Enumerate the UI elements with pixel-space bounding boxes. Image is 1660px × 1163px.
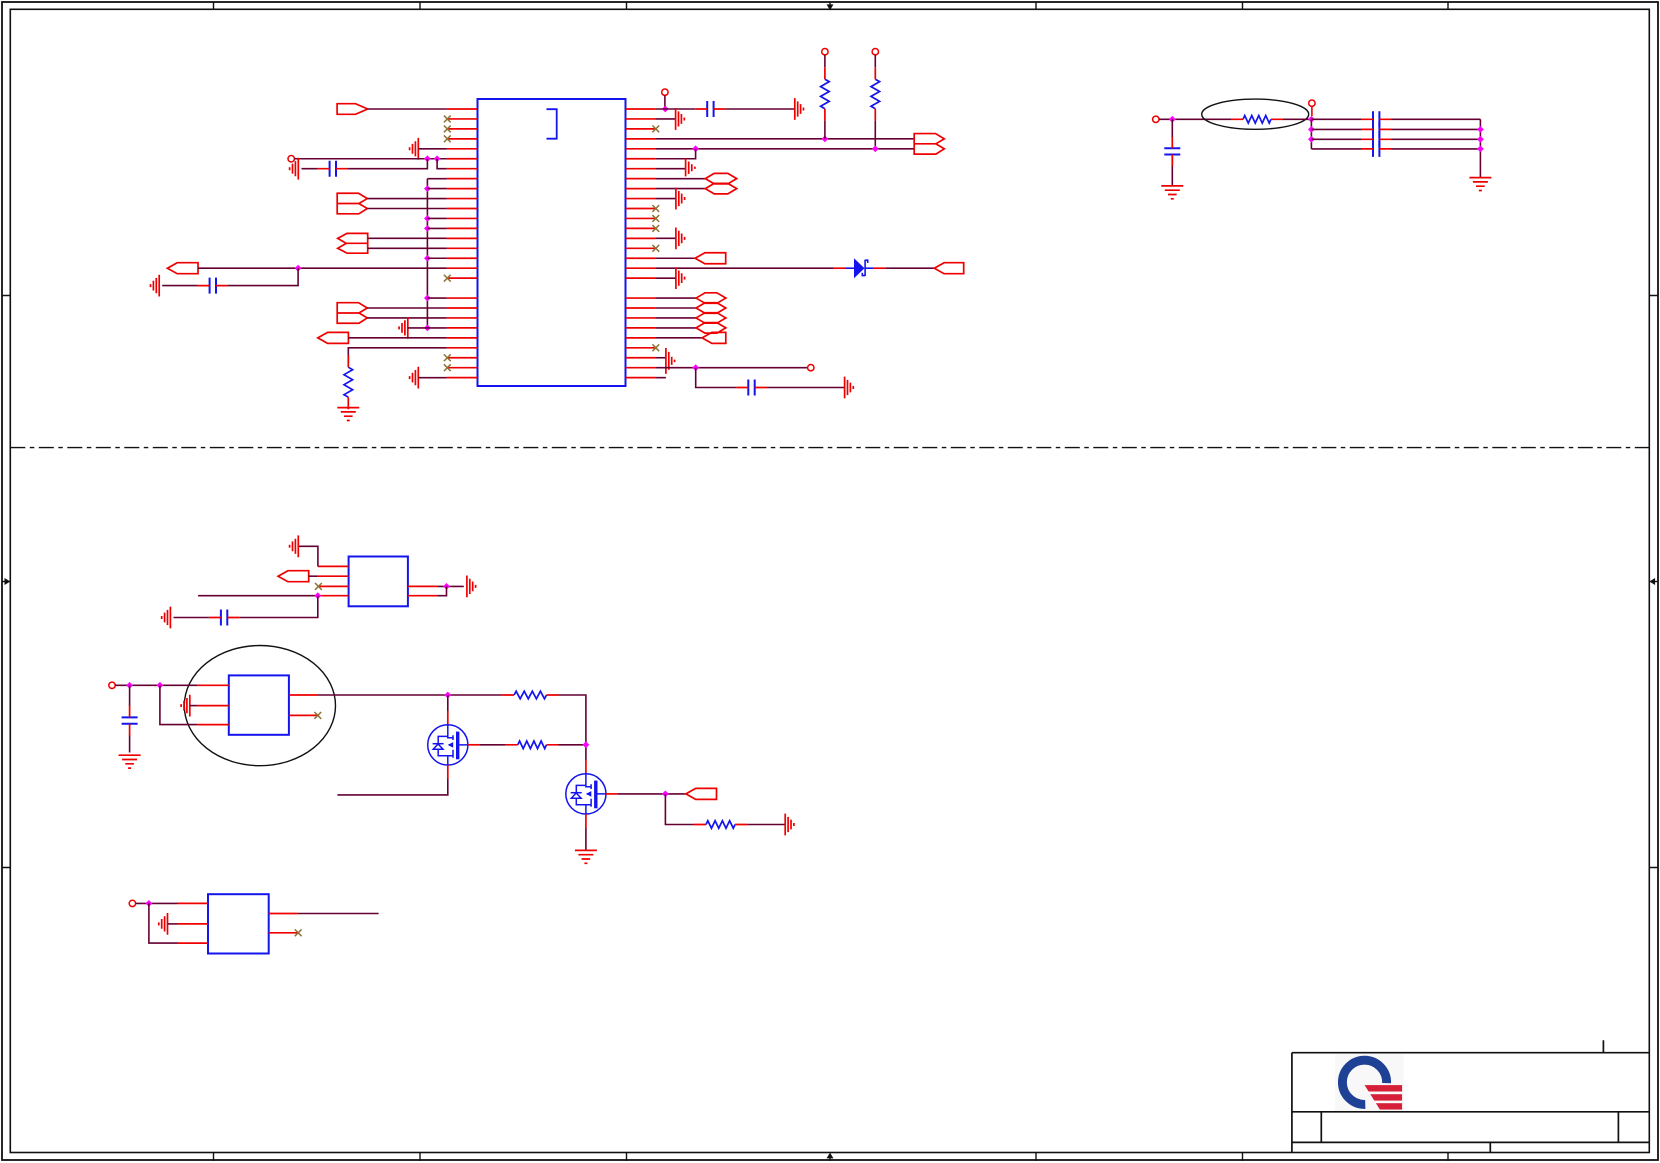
capacitor C6 <box>1373 111 1379 127</box>
capacitor C2 <box>210 278 216 294</box>
company logo blue ring <box>1342 1060 1386 1104</box>
resistor R9 <box>706 821 735 829</box>
ground GR4 (row10) <box>676 188 685 210</box>
connector A (row1 out tag) <box>337 104 368 115</box>
junction row6 b <box>434 155 441 162</box>
wire gnd bus <box>426 179 428 328</box>
wire res R9 branch <box>665 794 694 825</box>
junction bus row16 <box>424 255 431 262</box>
wire row28 <box>418 377 446 379</box>
IC U1 pin-1 bracket <box>547 109 557 139</box>
wire U2 pin2 <box>309 575 318 577</box>
junction r-row27 <box>692 364 699 371</box>
IC U3 body <box>229 675 289 734</box>
no-connect r-row11 <box>652 205 659 212</box>
ground GR11 (R9) <box>785 814 794 836</box>
wire row22 <box>367 317 446 319</box>
wire row9 <box>427 188 446 190</box>
junction bank row2 l <box>1308 126 1315 133</box>
IC U2 right pins <box>408 586 437 595</box>
wire r-row5 <box>655 148 914 150</box>
wire r-row23 <box>655 327 696 329</box>
wire r-row9 <box>655 188 705 190</box>
wire row10 <box>367 198 446 200</box>
junction bus row20 <box>424 295 431 302</box>
wire R2 top <box>874 55 876 67</box>
wire row8 <box>427 178 446 180</box>
wire row25 <box>348 348 446 364</box>
connector G (rows4-5 out) <box>914 134 944 155</box>
no-connect r-row12 <box>652 215 659 222</box>
wire U2 out2 <box>437 586 446 595</box>
wire row16 <box>427 257 446 259</box>
wire bank right vertical <box>1479 119 1481 177</box>
connector C (rows14-15 in) <box>338 233 368 253</box>
ground GR2 (row2) <box>676 108 685 130</box>
connector D (row17 in tag) <box>167 263 198 274</box>
capacitor C11 <box>221 610 227 626</box>
ground GL4 (row23) <box>399 317 408 339</box>
wire bank row2 <box>1311 128 1480 130</box>
wire r-row26 <box>655 357 666 359</box>
ground GR3 (rows6-7) <box>686 158 695 176</box>
wire cap C2 branch <box>162 268 298 285</box>
wire VBAT <box>115 684 198 686</box>
ground G8 (R5) <box>337 408 359 421</box>
connector K3 hexagon <box>696 313 726 324</box>
junction bus row12 <box>424 215 431 222</box>
junction row6 a <box>424 155 431 162</box>
capacitor C12 <box>122 717 138 723</box>
wire r-row27 <box>655 367 807 369</box>
ground G10 (C10) <box>1161 186 1183 199</box>
wire r-row2 <box>655 118 675 120</box>
connector J (row17 out tag) <box>934 263 963 274</box>
wire bank row1 <box>1311 118 1480 120</box>
wire row24 <box>348 337 446 339</box>
IC U4 right pins <box>269 914 298 933</box>
wire U3 out1 <box>318 694 503 696</box>
wire GL8 stem <box>190 705 198 707</box>
wire r-row18 <box>655 277 676 279</box>
wire row6 <box>294 158 446 160</box>
wire GL9 stem <box>168 923 178 925</box>
junction bus row23 <box>424 325 431 332</box>
IC U3 right pins <box>289 695 318 715</box>
annotation ellipse 2 <box>184 646 335 766</box>
no-connect r-row13 <box>652 225 659 232</box>
node VOUT circle <box>1309 100 1315 106</box>
connector M (U2 tag) <box>278 571 309 582</box>
wire cap C11 branch <box>174 596 318 618</box>
ground GL1 (row5) <box>410 138 419 160</box>
wire row23 <box>408 327 447 329</box>
wire VDD stub <box>664 95 666 109</box>
capacitor C7 <box>1373 121 1379 137</box>
border center arrow left <box>2 581 5 583</box>
wire U3 pin3 feed <box>160 685 198 724</box>
node VDD circle <box>662 89 668 95</box>
junction Q2 gate <box>662 791 669 798</box>
IC U4 left pins <box>178 903 209 943</box>
IC U2 body <box>349 557 408 607</box>
wire VOUT stub <box>1311 106 1313 116</box>
wire U2 out1 <box>437 585 464 587</box>
no-connect U3 out2 <box>314 712 321 719</box>
wire row5 <box>418 148 446 150</box>
junction VBAT b <box>157 682 164 689</box>
resistor R2 <box>871 79 880 109</box>
connector N (gate tag) <box>686 788 717 799</box>
wire r-row20 <box>655 297 696 299</box>
no-connect r-row3 <box>652 126 659 133</box>
IC U1 left pins <box>447 109 478 378</box>
ground GR5 (row14) <box>676 227 685 249</box>
node sense circle <box>808 365 814 371</box>
junction VBAT a <box>126 682 133 689</box>
node VSYS circle <box>129 900 135 906</box>
junction r-row1 <box>662 106 669 113</box>
IC U1 body <box>478 99 626 386</box>
capacitor C5 <box>748 380 754 396</box>
connector I (row16 tag) <box>695 253 726 264</box>
node VBAT circle <box>109 682 115 688</box>
wire U2 pin1 <box>298 546 318 566</box>
wire cap C10 branch <box>1171 119 1173 186</box>
no-connect row4 <box>444 135 451 142</box>
connector H1 hexagon <box>705 173 736 184</box>
junction bus row13 <box>424 225 431 232</box>
wire r-row24 <box>655 337 702 339</box>
border center arrow bottom <box>829 1158 831 1161</box>
wire row7 jog <box>437 159 447 169</box>
wire R9 out <box>747 824 785 826</box>
wire Q1 gate <box>468 744 480 746</box>
title block frame <box>1292 1053 1649 1143</box>
node pullup2 circle <box>872 49 878 55</box>
ground G9 (bank) <box>1469 178 1491 191</box>
resistor R1 <box>821 79 830 109</box>
resistor R5 <box>344 367 353 397</box>
junction r-row5 b <box>872 145 879 152</box>
section divider dash-dot line <box>10 447 1649 449</box>
junction bus row9 <box>424 185 431 192</box>
junction R1 bottom <box>822 135 829 142</box>
wire bank row4 <box>1311 148 1480 150</box>
wire diode out <box>886 267 934 269</box>
capacitor C10 <box>1164 148 1180 154</box>
no-connect U4 out2 <box>295 929 302 936</box>
junction U2 out <box>443 583 450 590</box>
junction bank row4 r <box>1477 146 1484 153</box>
junction bank row1 <box>1308 116 1315 123</box>
ground GL3 (C2) <box>151 275 160 297</box>
ground GL8 (U3) <box>181 695 190 717</box>
capacitor C9 <box>1373 141 1379 157</box>
ground GR7 (rows26-28) <box>666 348 675 374</box>
resistor R6 (ferrite) <box>1243 116 1271 124</box>
junction VSYS <box>146 900 153 907</box>
connector K2 hexagon <box>696 303 726 314</box>
wire row12 <box>427 217 446 219</box>
no-connect row3 <box>444 126 451 133</box>
wire cap C1 branch <box>302 159 428 169</box>
IC U1 right pins <box>626 109 656 378</box>
junction Q2 drain net <box>583 741 590 748</box>
wire bank row3 <box>1311 138 1480 140</box>
connector E (rows21-22 out) <box>337 303 367 324</box>
annotation ellipse 1 <box>1202 99 1309 129</box>
ground GR10 (U2) <box>467 576 476 598</box>
connector K1 hexagon <box>696 293 726 304</box>
border center arrow top <box>829 2 831 5</box>
ground GR1 (C4) <box>795 98 804 120</box>
wire r-row28 <box>655 377 666 379</box>
wire r-row21 <box>655 307 696 309</box>
wire Q2 gate <box>606 793 618 795</box>
IC U3 left pins <box>198 685 229 724</box>
wire Q1 drain <box>447 695 449 711</box>
ground G12 (Q2) <box>575 850 597 863</box>
resistor R8 <box>518 741 547 749</box>
junction Q1 drain <box>444 692 451 699</box>
no-connect row26 <box>444 354 451 361</box>
no-connect r-row15 <box>652 245 659 252</box>
border center arrow right <box>1655 581 1658 583</box>
no-connect row2 <box>444 116 451 123</box>
capacitor C4 <box>707 101 713 117</box>
junction r-row5 a <box>692 145 699 152</box>
wire bank left vertical <box>1310 119 1312 149</box>
diode D1 schottky <box>833 267 845 269</box>
connector H2 hexagon <box>705 183 736 194</box>
ground GL6 (U2) <box>290 535 299 557</box>
wire r-row16 <box>655 257 695 259</box>
junction bank row2 r <box>1477 126 1484 133</box>
wire row20 <box>427 297 446 299</box>
resistor R7 <box>514 691 546 699</box>
junction row17 <box>295 265 302 272</box>
wire r-row14 <box>655 237 676 239</box>
node pullup1 circle <box>822 49 828 55</box>
no-connect row18 <box>444 275 451 282</box>
capacitor C1 <box>330 161 336 177</box>
wire U2 pin4 <box>198 595 318 597</box>
wire Q1 source <box>447 765 449 779</box>
wire r-row7 <box>655 168 685 170</box>
ground GL9 (U4) <box>159 913 168 935</box>
ground GL5 (row28) <box>410 367 419 389</box>
IC U4 body <box>208 894 269 953</box>
transistor Q2 <box>566 774 606 814</box>
wire Q2 source <box>585 814 587 828</box>
wire R6 out <box>1283 118 1311 120</box>
wire cap C5 branch <box>696 368 845 388</box>
junction VIN <box>1169 116 1176 123</box>
connector K4 hexagon <box>696 323 726 334</box>
wire r-row22 <box>655 317 696 319</box>
ground GL2 (C1) <box>290 158 299 180</box>
capacitor C8 <box>1373 131 1379 147</box>
wire R1 bottom <box>824 121 826 139</box>
ground G11 (C12) <box>119 755 141 768</box>
wire row15 <box>368 247 447 249</box>
ground GR6 (row18) <box>676 267 685 289</box>
node VCC1 circle <box>288 156 294 162</box>
wire row1 <box>368 108 447 110</box>
wire Q2 drain <box>585 760 587 774</box>
wire R2 bottom <box>874 121 876 149</box>
wire row17 <box>198 267 447 269</box>
connector L (row24 tag) <box>702 332 726 343</box>
wire r-row4 <box>655 138 914 140</box>
wire row14 <box>368 237 447 239</box>
connector F (row24 in tag) <box>318 332 349 343</box>
ground GR8 (C5) <box>845 377 854 399</box>
junction U2 pin4 <box>314 592 321 599</box>
junction bank row3 l <box>1308 136 1315 143</box>
company logo background <box>1335 1055 1404 1111</box>
wire VIN <box>1159 118 1231 120</box>
wire row11 <box>367 208 446 210</box>
ground GL7 (C11) <box>162 607 171 629</box>
no-connect row27 <box>444 364 451 371</box>
wire row13 <box>427 227 446 229</box>
IC U2 left pins <box>318 566 349 595</box>
wire r-row8 <box>655 178 705 180</box>
wire cap C12 branch <box>129 685 131 752</box>
node VIN circle <box>1153 116 1159 122</box>
wire R7 out <box>559 695 586 760</box>
no-connect r-row25 <box>652 344 659 351</box>
junction bank row3 r <box>1477 136 1484 143</box>
wire U4 out <box>298 913 379 915</box>
wire r-row5 jog <box>686 149 696 159</box>
wire R8 out <box>559 744 586 746</box>
wire R1 top <box>824 55 826 67</box>
wire U4 pin1 <box>136 902 178 904</box>
wire r-row17 <box>655 267 833 269</box>
connector B (rows10-11 out) <box>337 193 367 214</box>
wire U4 pin3 feed <box>149 903 178 943</box>
transistor Q1 <box>428 725 468 765</box>
no-connect U2 pin3 <box>315 583 322 590</box>
wire r-row10 <box>655 198 676 200</box>
wire r-row6 <box>655 158 685 160</box>
wire row21 <box>367 307 446 309</box>
wire r-row1 <box>655 108 795 110</box>
